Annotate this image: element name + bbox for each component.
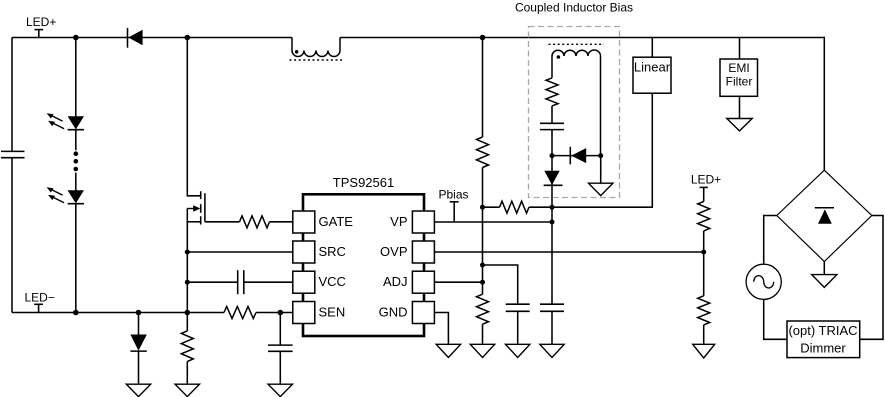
L1 core dotted line [290,59,343,61]
bridge rectifier BR1 diamond [777,170,872,261]
node LED+ right terminal [691,172,721,201]
wire divider middle [703,231,705,296]
pin box GND [412,302,434,324]
svg-text:GND: GND [379,304,408,319]
wire top rail drop to bridge top [823,37,825,171]
pin box ADJ [412,271,434,293]
resistor R4 sense [224,307,256,319]
wire top rail left segment [12,37,292,39]
ground below D4 [126,384,150,396]
ground below R2 [175,384,199,396]
svg-text:Pbias: Pbias [439,188,469,202]
wire left edge lower [11,158,13,313]
svg-text:LED+: LED+ [691,172,721,186]
capacitor C3 SEN filter [268,313,293,385]
node dot rail/LED string [73,310,79,316]
ground below C4 [506,344,530,357]
BR1 inner diode [815,208,834,224]
capacitor C5 VP bypass [540,304,564,311]
wire bias R to C [551,106,553,123]
node LED- terminal bottom left [25,291,55,313]
wire bias output line x552 [551,156,553,345]
node dot bias right [598,153,603,158]
svg-text:Filter: Filter [726,74,753,88]
svg-text:GATE: GATE [319,214,354,229]
svg-text:VCC: VCC [319,274,346,289]
resistor R10 OVP lower [698,296,710,325]
wire bias C to node [551,130,553,156]
wire rail to EMI filter [739,38,741,60]
pin box SEN [293,302,315,324]
wire LED string segments [75,38,77,313]
wire bias right to ground [600,156,602,184]
block TRIAC dimmer [787,321,860,358]
node dot x552/Pbias resistor/linear [550,205,555,210]
svg-text:SRC: SRC [319,244,346,259]
resistor R5 VP feed upper [477,137,489,168]
L1 phase dot [295,50,299,54]
ground below C5 [540,344,564,357]
block EMI Filter [720,59,758,96]
resistor R9 OVP upper [698,202,710,231]
node dot x482/cap branch [480,263,485,268]
wire MOSFET source contact [187,221,200,223]
svg-text:Linear: Linear [634,60,671,75]
node dots (more LEDs) [74,151,79,171]
diode D6 bias down [544,171,563,186]
wire GND pin to ground [434,313,448,345]
wire EMI to ground [739,96,741,118]
LED D3 bottom of string [47,187,84,204]
capacitor C2 VCC [238,270,244,294]
wire VP pin to bias node [434,221,552,223]
node dot top rail / VP resistor line [480,35,486,41]
AC source V1 [746,264,781,299]
node dot bias left [550,153,555,158]
node Pbias terminal [439,188,469,223]
diode D1 on top rail [128,28,143,48]
pin box SRC [293,241,315,263]
svg-text:LED+: LED+ [26,15,56,29]
node dot top rail / drain [185,35,191,41]
wire OVP pin long run [434,251,703,253]
node dot rail/diode [136,310,142,316]
dashed box Coupled Inductor Bias [529,27,620,198]
L2 core dotted line [549,43,605,45]
wire top rail right segment [340,37,824,39]
wire rail to Linear [651,38,653,58]
ground below R6 [470,344,494,357]
svg-text:(opt) TRIAC: (opt) TRIAC [788,323,857,338]
node dot x482/Pbias resistor [480,205,485,210]
svg-text:Coupled Inductor Bias: Coupled Inductor Bias [515,1,633,15]
node dot source/SRC [185,250,190,255]
wire gate lead [205,221,293,223]
resistor R1 gate [240,216,270,228]
node dot top rail / LED string [73,35,79,41]
node dot rail/SEN cap [278,310,284,316]
L2 phase dot [557,55,561,59]
node dot source/VCC [185,280,190,285]
diode D4 to ground [130,313,146,385]
inductor L2 bias winding [552,50,601,156]
resistor R2 below source [181,313,193,385]
svg-text:OVP: OVP [380,244,407,259]
pin box VP [412,211,434,233]
wire bridge right to TRIAC box [860,216,883,340]
wire divider to ground [703,325,705,344]
svg-text:SEN: SEN [319,304,346,319]
node LED+ terminal top left [26,15,56,37]
wire ADJ pin [434,281,482,283]
LED D2 top of string [47,113,84,130]
capacitor C1 input cap left edge [1,151,25,157]
wire bridge left to AC source [764,216,777,265]
pin box OVP [412,241,434,263]
svg-text:VP: VP [390,214,407,229]
wire left edge upper [11,38,13,152]
node dot x552/VP wire [550,220,555,225]
ground bias winding [589,183,613,195]
wire ADJ cap branch [483,265,518,344]
diode D5 bias clamp left-pointing [570,147,586,165]
wire LED- / SEN rail [12,312,293,314]
block Linear regulator [633,57,671,93]
ground below bridge [812,275,837,288]
wire SRC pin [187,251,292,253]
resistor R6 ADJ lower [477,294,489,324]
wire bias node horizontal [552,155,601,157]
node dot OVP divider [701,250,706,255]
op-amp U1 TPS92561 body [303,194,424,336]
node dot rail/source [185,310,191,316]
wire bridge bottom to ground [823,262,825,275]
ground below EMI filter [727,119,752,131]
wire source line down [186,209,188,313]
wire Linear output to bias node [552,93,652,207]
svg-text:TPS92561: TPS92561 [333,175,394,190]
capacitor C6 bias [540,123,564,129]
wire AC to TRIAC box [764,299,787,339]
svg-text:LED−: LED− [25,291,55,305]
ground below divider [693,344,715,358]
capacitor C4 ADJ [506,304,530,311]
pin box GATE [293,211,315,233]
resistor R8 bias [546,78,558,106]
node dot x482/ADJ [480,280,485,285]
ground GND pin [436,344,460,357]
resistor R7 Pbias series [483,201,553,213]
pin box VCC [293,271,315,293]
svg-text:ADJ: ADJ [383,274,408,289]
svg-text:Dimmer: Dimmer [800,340,846,355]
transistor Q1 MOSFET [187,191,205,224]
wire VCC pin [187,281,292,283]
ground below C3 [268,384,292,396]
wire VP feed vertical line x482 [482,38,484,345]
wire MOSFET drain [187,38,200,196]
svg-text:EMI: EMI [728,61,749,75]
inductor L1 [292,38,340,57]
